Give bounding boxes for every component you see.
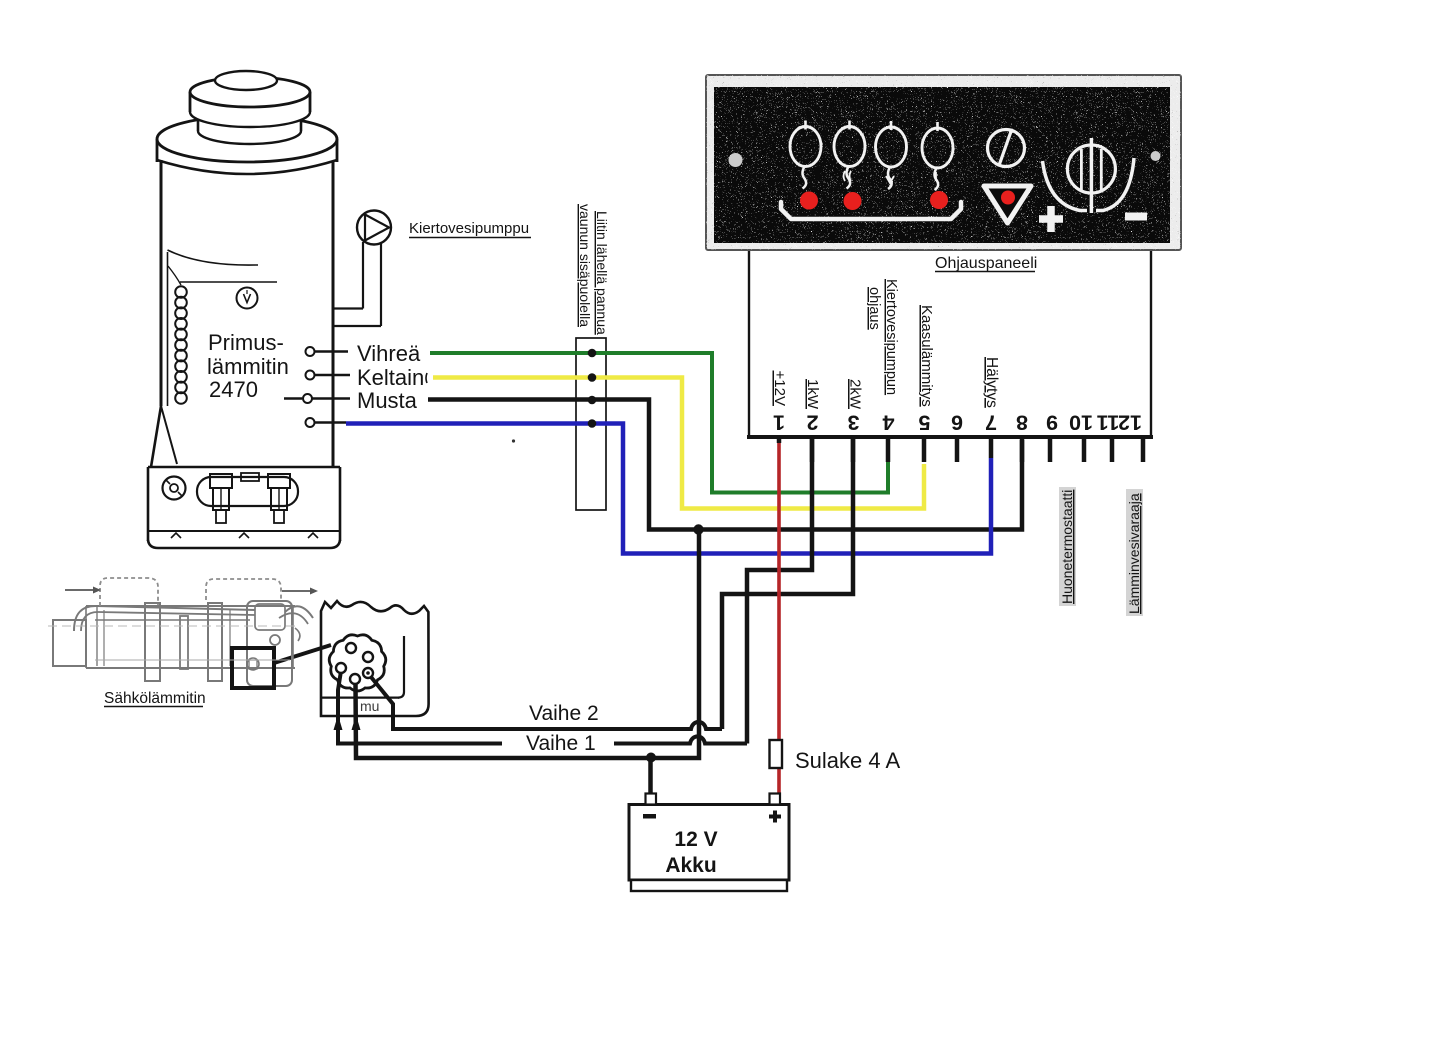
svg-text:Vihreä: Vihreä: [357, 341, 421, 366]
svg-text:10: 10: [1069, 411, 1093, 435]
svg-text:5: 5: [918, 411, 930, 435]
svg-text:Kiertovesipumpun: Kiertovesipumpun: [883, 279, 899, 395]
svg-text:9: 9: [1046, 411, 1058, 435]
svg-text:Vaihe 2: Vaihe 2: [529, 702, 599, 725]
svg-text:Sähkölämmitin: Sähkölämmitin: [104, 690, 206, 707]
svg-text:2470: 2470: [209, 377, 258, 402]
svg-text:7: 7: [985, 411, 997, 435]
svg-text:Liitin lähellä pannua: Liitin lähellä pannua: [594, 211, 610, 335]
svg-text:8: 8: [1016, 411, 1028, 435]
svg-text:Hälytys: Hälytys: [983, 357, 1000, 408]
svg-text:ohjaus: ohjaus: [866, 287, 882, 330]
svg-text:4: 4: [882, 411, 894, 435]
svg-text:mu: mu: [360, 698, 379, 714]
svg-text:Ohjauspaneeli: Ohjauspaneeli: [935, 255, 1037, 272]
svg-text:Musta: Musta: [357, 388, 418, 413]
svg-text:lämmitin: lämmitin: [207, 354, 289, 379]
svg-text:Kiertovesipumppu: Kiertovesipumppu: [409, 220, 529, 237]
svg-text:11: 11: [1097, 411, 1120, 435]
svg-text:Akku: Akku: [665, 854, 716, 877]
svg-text:2kW: 2kW: [847, 379, 864, 410]
svg-text:vaunun sisäpuolella: vaunun sisäpuolella: [577, 204, 593, 327]
svg-text:2: 2: [806, 411, 818, 435]
svg-text:1: 1: [773, 411, 785, 435]
svg-text:Huonetermostaatti: Huonetermostaatti: [1059, 490, 1075, 604]
svg-text:Kaasulämmitys: Kaasulämmitys: [918, 305, 935, 407]
svg-text:+12V: +12V: [771, 371, 788, 406]
svg-text:3: 3: [847, 411, 859, 435]
svg-text:Sulake 4 A: Sulake 4 A: [795, 748, 901, 773]
svg-text:Primus-: Primus-: [208, 330, 284, 355]
svg-text:6: 6: [951, 411, 963, 435]
svg-text:Vaihe 1: Vaihe 1: [526, 732, 596, 755]
svg-text:12: 12: [1118, 411, 1142, 435]
svg-text:12 V: 12 V: [674, 828, 717, 851]
svg-text:Lämminvesivaraaja: Lämminvesivaraaja: [1126, 493, 1142, 614]
svg-text:1kW: 1kW: [804, 379, 821, 410]
svg-text:Keltain: Keltain: [357, 365, 424, 390]
